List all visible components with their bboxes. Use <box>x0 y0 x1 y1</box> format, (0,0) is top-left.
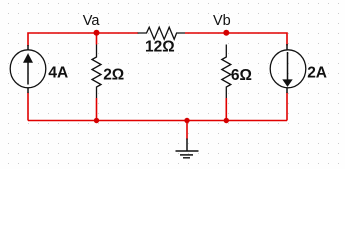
wire top-right from 12-ohm through Vb, corner down to 2A source <box>185 33 287 46</box>
wire ground stub <box>186 121 188 140</box>
svg-text:Vb: Vb <box>213 13 231 29</box>
wire right vertical below 2A source <box>286 93 288 121</box>
wire Va stub down to 2-ohm <box>96 33 98 45</box>
ground <box>176 139 199 158</box>
resistor 12-ohm <box>138 27 185 56</box>
svg-text:4A: 4A <box>48 65 68 82</box>
svg-text:Va: Va <box>83 13 101 29</box>
wire top-left L (left vertical drop + top horizontal to 12-ohm) <box>28 33 138 46</box>
resistor 2-ohm <box>92 45 124 99</box>
wire bottom horizontal <box>28 120 287 122</box>
wire 2-ohm bottom stub <box>96 98 98 121</box>
svg-text:6Ω: 6Ω <box>231 67 252 84</box>
junction dot bottom of 6-ohm <box>224 118 229 123</box>
svg-text:12Ω: 12Ω <box>145 39 175 56</box>
current source I1 4A <box>10 45 68 93</box>
resistor 6-ohm <box>222 45 252 99</box>
current source I2 2A <box>270 44 327 93</box>
node Vb junction dot <box>223 30 229 36</box>
node Va junction dot <box>94 30 100 36</box>
wire left vertical below 4A source <box>27 93 29 121</box>
svg-text:2Ω: 2Ω <box>103 67 124 84</box>
junction dot at ground <box>184 118 189 123</box>
svg-text:2A: 2A <box>307 64 327 81</box>
junction dot bottom of 2-ohm <box>94 118 99 123</box>
wire 6-ohm bottom stub <box>225 98 227 121</box>
